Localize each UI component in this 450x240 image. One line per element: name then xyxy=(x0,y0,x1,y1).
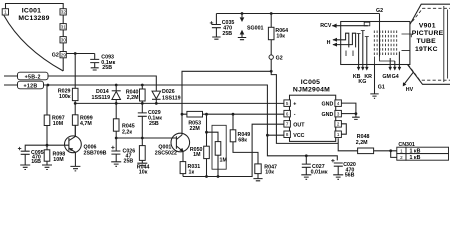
ground Q006 emitter xyxy=(70,166,80,171)
node C027 top xyxy=(305,154,308,157)
wire to CN301 pin 2 xyxy=(391,151,397,158)
grid electrodes xyxy=(374,31,396,65)
svg-text:25B: 25B xyxy=(222,31,232,37)
pin 7 OUT xyxy=(284,121,305,129)
G2 top wire xyxy=(216,13,379,15)
HV arrow xyxy=(403,72,414,93)
resistor R045 xyxy=(113,103,134,151)
diode D026 1SS119 xyxy=(152,89,181,103)
ground C095 xyxy=(20,165,30,170)
svg-text:HV: HV xyxy=(406,87,414,93)
resistor R029 xyxy=(58,88,78,103)
svg-text:H: H xyxy=(327,40,331,46)
node R048 / CN301 junction xyxy=(389,149,392,152)
svg-text:1SS119: 1SS119 xyxy=(162,95,181,101)
node 1M bottom on rail xyxy=(217,175,220,178)
+12B rail xyxy=(4,81,267,135)
node R050 bottom on rail xyxy=(205,175,208,178)
pin 30 xyxy=(60,37,66,43)
node Q001 collector / R053 junction xyxy=(181,113,184,116)
svg-text:G2: G2 xyxy=(52,53,59,59)
svg-text:10M: 10M xyxy=(53,121,64,127)
capacitor C035 xyxy=(210,14,235,37)
pin 29 G2 xyxy=(52,52,67,59)
svg-text:10к: 10к xyxy=(276,34,285,40)
pin 4 GND xyxy=(322,100,342,107)
svg-text:KG: KG xyxy=(358,79,366,85)
pins 1-2 jumper xyxy=(341,124,346,134)
ground C026 xyxy=(111,162,121,167)
svg-text:D026: D026 xyxy=(162,89,175,95)
node pins 3-4 ground junction xyxy=(355,112,358,115)
G2 net jog down to pin1 line xyxy=(271,71,338,143)
connector CN301 xyxy=(397,142,449,161)
svg-text:IC005: IC005 xyxy=(301,79,320,86)
tube funnel outline bottom xyxy=(408,65,450,85)
wire pin 3 to ground xyxy=(341,113,356,115)
svg-text:G2: G2 xyxy=(276,56,283,62)
GM G4 pins xyxy=(382,52,401,81)
svg-text:10к: 10к xyxy=(265,170,274,176)
svg-text:GND: GND xyxy=(322,101,334,107)
svg-text:2,2к: 2,2к xyxy=(122,129,132,135)
svg-text:19TKC: 19TKC xyxy=(415,46,438,53)
resistor R097 xyxy=(44,85,65,145)
svg-text:G4: G4 xyxy=(392,74,399,80)
svg-text:+: + xyxy=(293,101,296,107)
+5B-2 rail xyxy=(4,72,156,91)
base node line Q006 xyxy=(25,145,69,151)
svg-text:TUBE: TUBE xyxy=(416,38,436,45)
capacitor C027 xyxy=(302,156,328,176)
capacitor C029 xyxy=(138,103,162,145)
svg-text:16B: 16B xyxy=(31,159,41,165)
svg-text:1M: 1M xyxy=(193,152,201,158)
tube funnel inner dashed top xyxy=(412,8,450,21)
ground R044 xyxy=(137,163,147,165)
svg-text:31: 31 xyxy=(61,25,67,30)
ground C093 xyxy=(91,68,99,70)
node R029 bottom xyxy=(74,102,77,105)
wire pin29 to node xyxy=(66,53,94,55)
pin 32 xyxy=(60,9,66,15)
resistor R053 22M xyxy=(187,111,203,131)
svg-text:10к: 10к xyxy=(139,169,148,175)
resistor R040 xyxy=(126,85,145,103)
svg-text:2SC5022: 2SC5022 xyxy=(155,150,177,156)
ground C027 xyxy=(301,175,311,180)
resistor R049 68k xyxy=(230,114,258,164)
svg-text:NJM2904M: NJM2904M xyxy=(293,86,330,93)
svg-text:GM: GM xyxy=(382,74,391,80)
pin 3 GND xyxy=(322,110,342,117)
svg-text:SG001: SG001 xyxy=(247,25,264,31)
spark gap SG001 xyxy=(240,12,264,37)
pin 6 xyxy=(284,110,296,117)
capacitor C093 xyxy=(90,54,115,72)
svg-text:OUT: OUT xyxy=(293,122,305,128)
capacitor C095 xyxy=(18,147,44,165)
wire pin 1 to R048 xyxy=(338,138,357,151)
svg-text:PICTURE: PICTURE xyxy=(412,30,444,37)
pin 1 xyxy=(335,131,342,138)
node R040/C029 on signal line xyxy=(141,102,144,105)
svg-text:GND: GND xyxy=(322,112,334,118)
pin6 line with R053 xyxy=(182,113,284,115)
wire node down to R029 xyxy=(74,54,76,89)
tube funnel inner dashed bottom xyxy=(408,65,450,81)
ground R098 xyxy=(42,165,52,170)
resistor R047 10k xyxy=(255,164,277,179)
svg-text:68к: 68к xyxy=(238,138,247,144)
resistor R064 xyxy=(268,12,288,55)
bottom rail (OUT net) xyxy=(183,124,284,176)
svg-text:RCV: RCV xyxy=(320,23,332,29)
svg-text:25B: 25B xyxy=(102,65,112,71)
svg-text:29: 29 xyxy=(61,52,67,57)
wire VCC decoupling line xyxy=(267,135,337,160)
tube labels xyxy=(412,23,444,54)
svg-text:22M: 22M xyxy=(190,126,201,132)
pin 31 xyxy=(60,24,66,30)
node D026 on signal line xyxy=(155,102,158,105)
collector riser / G2 feedback line xyxy=(182,71,271,135)
svg-text:100к: 100к xyxy=(59,94,71,100)
svg-text:25B: 25B xyxy=(124,159,134,165)
svg-text:25B: 25B xyxy=(149,121,159,127)
G2 drop into tube xyxy=(379,14,381,57)
node G2 feedback junction xyxy=(270,70,273,73)
VCC node and decoupling line xyxy=(266,134,269,137)
pin 8 VCC xyxy=(284,131,305,139)
svg-text:1 кВ: 1 кВ xyxy=(410,149,421,155)
svg-text:+5B-2: +5B-2 xyxy=(25,75,41,81)
grid to funnel ticks xyxy=(402,34,412,50)
node R049 top xyxy=(232,113,235,116)
capacitor C020 xyxy=(331,159,356,179)
svg-text:32: 32 xyxy=(61,10,67,15)
svg-text:56B: 56B xyxy=(345,173,355,179)
node R097/R098/Q006 base junction xyxy=(46,144,49,147)
IC001 MC13289 outline xyxy=(4,4,63,72)
svg-text:MC13289: MC13289 xyxy=(18,15,49,22)
svg-text:1 кВ: 1 кВ xyxy=(410,155,421,161)
transistor Q006 2SB709B xyxy=(65,125,107,166)
svg-text:G1: G1 xyxy=(378,84,385,90)
node 1M tap on R050 lead xyxy=(205,131,208,134)
tube funnel outline xyxy=(410,4,450,24)
svg-text:4,7M: 4,7M xyxy=(80,121,92,127)
node pin29 junction xyxy=(74,52,77,55)
coating flag xyxy=(364,22,370,26)
svg-text:0,01мк: 0,01мк xyxy=(311,170,328,176)
pins 3-4 to ground xyxy=(341,103,356,117)
capacitor C026 xyxy=(111,146,135,165)
picture tube V901 neck xyxy=(341,22,410,65)
heater H wires xyxy=(327,33,356,56)
resistor R048 2.2M xyxy=(356,134,397,154)
svg-text:G2: G2 xyxy=(376,8,383,14)
pin 1 xyxy=(2,9,8,15)
svg-text:1к: 1к xyxy=(189,169,195,175)
svg-text:VCC: VCC xyxy=(293,133,304,139)
resistor R031 xyxy=(180,162,200,177)
1M resistor in box xyxy=(207,125,228,176)
svg-text:30: 30 xyxy=(61,38,67,43)
ground pins 3-4 xyxy=(352,117,360,119)
svg-text:V901: V901 xyxy=(419,23,436,30)
ground R047 xyxy=(253,179,262,181)
base line Q001 xyxy=(116,137,176,139)
svg-text:+12B: +12B xyxy=(23,84,37,90)
resistor R099 xyxy=(72,103,92,136)
svg-text:-: - xyxy=(294,112,296,118)
node D014/R045 on signal line xyxy=(115,102,118,105)
svg-text:2,2M: 2,2M xyxy=(127,95,139,101)
ground C020 xyxy=(333,175,343,180)
resistor R098 xyxy=(44,145,65,165)
screen lines xyxy=(444,6,448,82)
node R050 top xyxy=(205,113,208,116)
pin 2 xyxy=(335,121,342,128)
svg-text:1SS119: 1SS119 xyxy=(92,95,111,101)
signal line to op-amp pin5 xyxy=(75,102,284,104)
svg-text:IC001: IC001 xyxy=(22,7,41,14)
wire VCC to pin 8 xyxy=(267,134,284,136)
svg-text:1M: 1M xyxy=(220,158,228,164)
RCV wire and arrow xyxy=(320,23,368,29)
svg-text:2SB709B: 2SB709B xyxy=(84,150,107,156)
op-amp IC005 NJM2904M body xyxy=(290,79,336,141)
node R045/C026 on Q001 base line xyxy=(115,137,118,140)
svg-text:2,2M: 2,2M xyxy=(356,140,368,146)
node C029/R044 on Q001 base line xyxy=(141,137,144,140)
node G2 connector circle xyxy=(269,55,283,71)
cathodes KB KG KR xyxy=(353,31,372,85)
G1 pin to ground xyxy=(370,65,385,99)
pin 5 xyxy=(284,100,296,107)
transistor Q001 2SC5022 xyxy=(155,133,190,161)
svg-text:10M: 10M xyxy=(53,157,64,163)
ground SG001 xyxy=(238,38,246,40)
resistor R044 xyxy=(137,146,150,176)
ground C035 xyxy=(212,37,220,39)
resistor R050 1M xyxy=(190,114,209,176)
diode D014 1SS119 xyxy=(92,85,121,103)
